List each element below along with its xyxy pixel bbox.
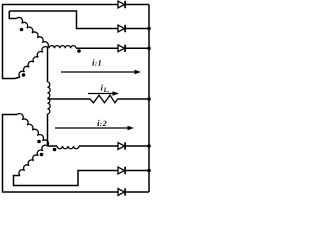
polarity dot: bottom phase a [37,140,41,144]
wire: D6 cathode to rail corner [126,191,149,193]
wire: D2 cathode to rail [126,28,149,30]
junction: load node [147,97,151,101]
junction: D4 output node [147,144,151,148]
svg-text:i:1: i:1 [92,58,102,68]
polarity dot: bottom phase c [53,148,57,152]
wire: bottom star point to phase c coil [48,145,58,147]
junction: D2 output node [147,27,151,31]
winding coil: bottom wye phase c (horizontal right) [57,146,79,149]
junction: D5 output node [147,169,151,173]
wire: bottom phase b step and run to diode D5 [14,171,119,186]
load resistor R [90,95,118,103]
current arrow i1 (top group output current) [61,70,141,75]
wire: bottom phase a terminal to diode D6 (left outer run) [3,115,119,193]
interphase transformer winding (center-tapped) [48,82,51,114]
wire: center tap to load resistor [48,98,91,100]
wire: load resistor to cathode rail [118,98,150,100]
wire: phase a run to diode D2 (top group) [9,11,118,29]
polarity dot: top phase a [20,28,24,32]
polarity dot: top phase b [22,73,26,77]
current arrow i2 (bottom group output current) [55,126,134,131]
winding coil: top wye phase c (horizontal right) [49,46,76,49]
wire: phase b terminal to diode D1 (left outer run, top group) [3,5,119,79]
winding coil: bottom wye phase a (upper-left) [17,113,48,146]
wire: phase c to diode D3 (top group) [76,47,118,49]
winding coil: top wye phase a (upper-left) [17,17,49,47]
polarity dot: top phase c [77,49,81,53]
wire: D1 cathode to rail corner [126,4,149,6]
wire: common cathode rail (right vertical) [148,5,150,193]
diode D6 [118,188,125,195]
wire: D4 cathode to rail [126,145,149,147]
diode D3 [118,45,125,52]
polarity dot: bottom phase b [40,153,44,157]
diode D1 [118,1,125,8]
svg-text:i:2: i:2 [97,118,107,128]
junction: D3 output node [147,47,151,51]
diode D5 [118,167,125,174]
wire: D5 cathode to rail [126,170,149,172]
wire: top star point down to interphase winding [47,48,49,83]
wire: D3 cathode to rail [126,47,149,49]
winding coil: bottom wye phase b (lower-left) [19,145,48,175]
diode D2 [118,25,125,32]
wire: phase c to diode D4 (bottom group) [79,145,118,147]
current arrow iL (load current) [88,91,119,96]
wire: interphase winding down to bottom star point [47,114,49,146]
winding coil: top wye phase b (lower-left) [19,47,48,77]
diode D4 [118,142,125,149]
wire: phase a terminal step (top group) [9,11,16,19]
